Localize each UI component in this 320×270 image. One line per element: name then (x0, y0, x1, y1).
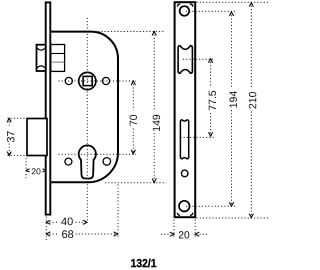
dimension 40 line (46, 221, 58, 223)
arrow 70 down (131, 150, 135, 154)
corner mark top-left (177, 4, 180, 7)
dimension text 68 (62, 230, 73, 238)
latch mechanism block (51, 45, 65, 72)
arrow 20 plate left (170, 232, 174, 236)
extension screw top (186, 10, 235, 12)
dimension 77.5 line (210, 59, 212, 86)
arrow 210 up (249, 3, 253, 7)
extension case right below (117, 185, 119, 239)
cylinder fixing hole (181, 170, 188, 177)
latch bolt head (37, 45, 46, 71)
extension case top (95, 31, 164, 33)
arrow 37 up (7, 118, 11, 122)
latch bevel arc bottom (37, 66, 46, 69)
extension latch center right view (183, 58, 215, 60)
dimension 149 line (153, 32, 155, 111)
dimension text 20 throw (32, 168, 41, 174)
lock case outline (50, 32, 118, 183)
extension deadbolt top (8, 117, 27, 119)
corner mark bottom-right (190, 213, 193, 216)
extension deadbolt center right view (181, 136, 216, 138)
arrow 20 throw right (43, 169, 46, 172)
extension deadbolt left (25, 158, 27, 179)
extension plate top (197, 1, 271, 3)
extension plate left below (173, 220, 175, 237)
arrow 40 left (46, 220, 50, 224)
arrow 20 plate right (195, 232, 199, 236)
dimension 20 plate line (161, 233, 170, 235)
extension faceplate below (45, 217, 47, 241)
corner mark top-right (190, 4, 193, 7)
extension plate bottom (197, 217, 271, 219)
fixing hole right (102, 77, 109, 84)
euro cylinder profile (79, 145, 96, 178)
deadbolt (27, 119, 47, 156)
dimension text 149 (153, 115, 160, 131)
mechanism divider 2 (51, 61, 65, 63)
cylinder side hole right (103, 158, 111, 166)
arrow 149 up (152, 32, 156, 36)
latch cutout spool (178, 46, 192, 73)
screw hole bottom (179, 201, 190, 212)
dimension text 20 plate (179, 231, 190, 238)
deadbolt cutout spool (180, 120, 188, 159)
centerline cylinder horizontal (59, 153, 137, 155)
arrow 37 down (7, 152, 11, 156)
follower circle (79, 72, 96, 89)
dimension 210 line (250, 3, 252, 89)
dimension text 77.5 (209, 91, 216, 110)
arrow 77.5 down (209, 132, 213, 136)
screw hole top (180, 6, 190, 16)
arrow 194 up (229, 12, 233, 16)
mechanism divider 1 (51, 53, 65, 55)
dimension 37 line (8, 118, 10, 125)
extension case bottom (105, 182, 166, 184)
arrow 40 right (83, 220, 87, 224)
cylinder side hole left (65, 158, 72, 165)
centerline vertical follower-cylinder (86, 18, 88, 223)
arrow 68 right (114, 232, 118, 236)
extension plate right below (194, 220, 196, 237)
arrow 194 down (229, 202, 233, 206)
dimension text 70 (130, 115, 137, 126)
model label 132/1 (131, 259, 156, 268)
dimension text 210 (249, 92, 256, 109)
latch bevel arc top (37, 47, 46, 50)
dimension text 194 (229, 91, 236, 107)
arrow 77.5 up (209, 59, 213, 63)
arrow 70 up (131, 81, 135, 85)
arrow 210 down (249, 214, 253, 218)
fixing hole left (65, 77, 72, 84)
corner mark bottom-left (177, 213, 180, 216)
arrow 68 left (46, 232, 50, 236)
extension screw bottom (186, 205, 235, 207)
dimension text 40 (61, 218, 73, 226)
faceplate edge bar (46, 2, 51, 214)
dimension text 37 (7, 131, 15, 142)
dimension 68 line (46, 233, 58, 235)
centerline follower horizontal (59, 80, 137, 82)
arrow 20 throw left (26, 169, 29, 172)
dimension 70 line (132, 81, 134, 110)
dimension 194 line (231, 12, 233, 88)
faceplate front view (175, 2, 196, 217)
spindle square (83, 76, 92, 85)
extension deadbolt bottom (8, 154, 26, 156)
arrow 149 down (152, 179, 156, 183)
